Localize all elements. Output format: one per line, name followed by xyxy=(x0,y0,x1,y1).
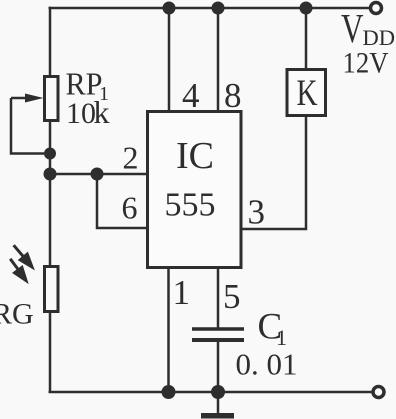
svg-text:8: 8 xyxy=(224,76,242,115)
svg-text:IC: IC xyxy=(176,135,214,177)
svg-text:4: 4 xyxy=(182,76,200,115)
svg-text:12V: 12V xyxy=(343,48,389,80)
svg-text:5: 5 xyxy=(223,277,241,316)
svg-text:6: 6 xyxy=(122,190,138,226)
svg-text:555: 555 xyxy=(165,187,216,224)
svg-text:RG: RG xyxy=(0,298,34,331)
svg-text:DD: DD xyxy=(363,25,396,50)
svg-text:K: K xyxy=(297,73,318,114)
svg-text:10: 10 xyxy=(66,97,96,130)
svg-text:V: V xyxy=(341,5,364,51)
svg-text:0. 01: 0. 01 xyxy=(236,347,298,382)
svg-text:k: k xyxy=(94,94,110,130)
svg-text:2: 2 xyxy=(123,140,139,176)
svg-text:1: 1 xyxy=(173,273,191,312)
svg-text:3: 3 xyxy=(248,193,266,232)
